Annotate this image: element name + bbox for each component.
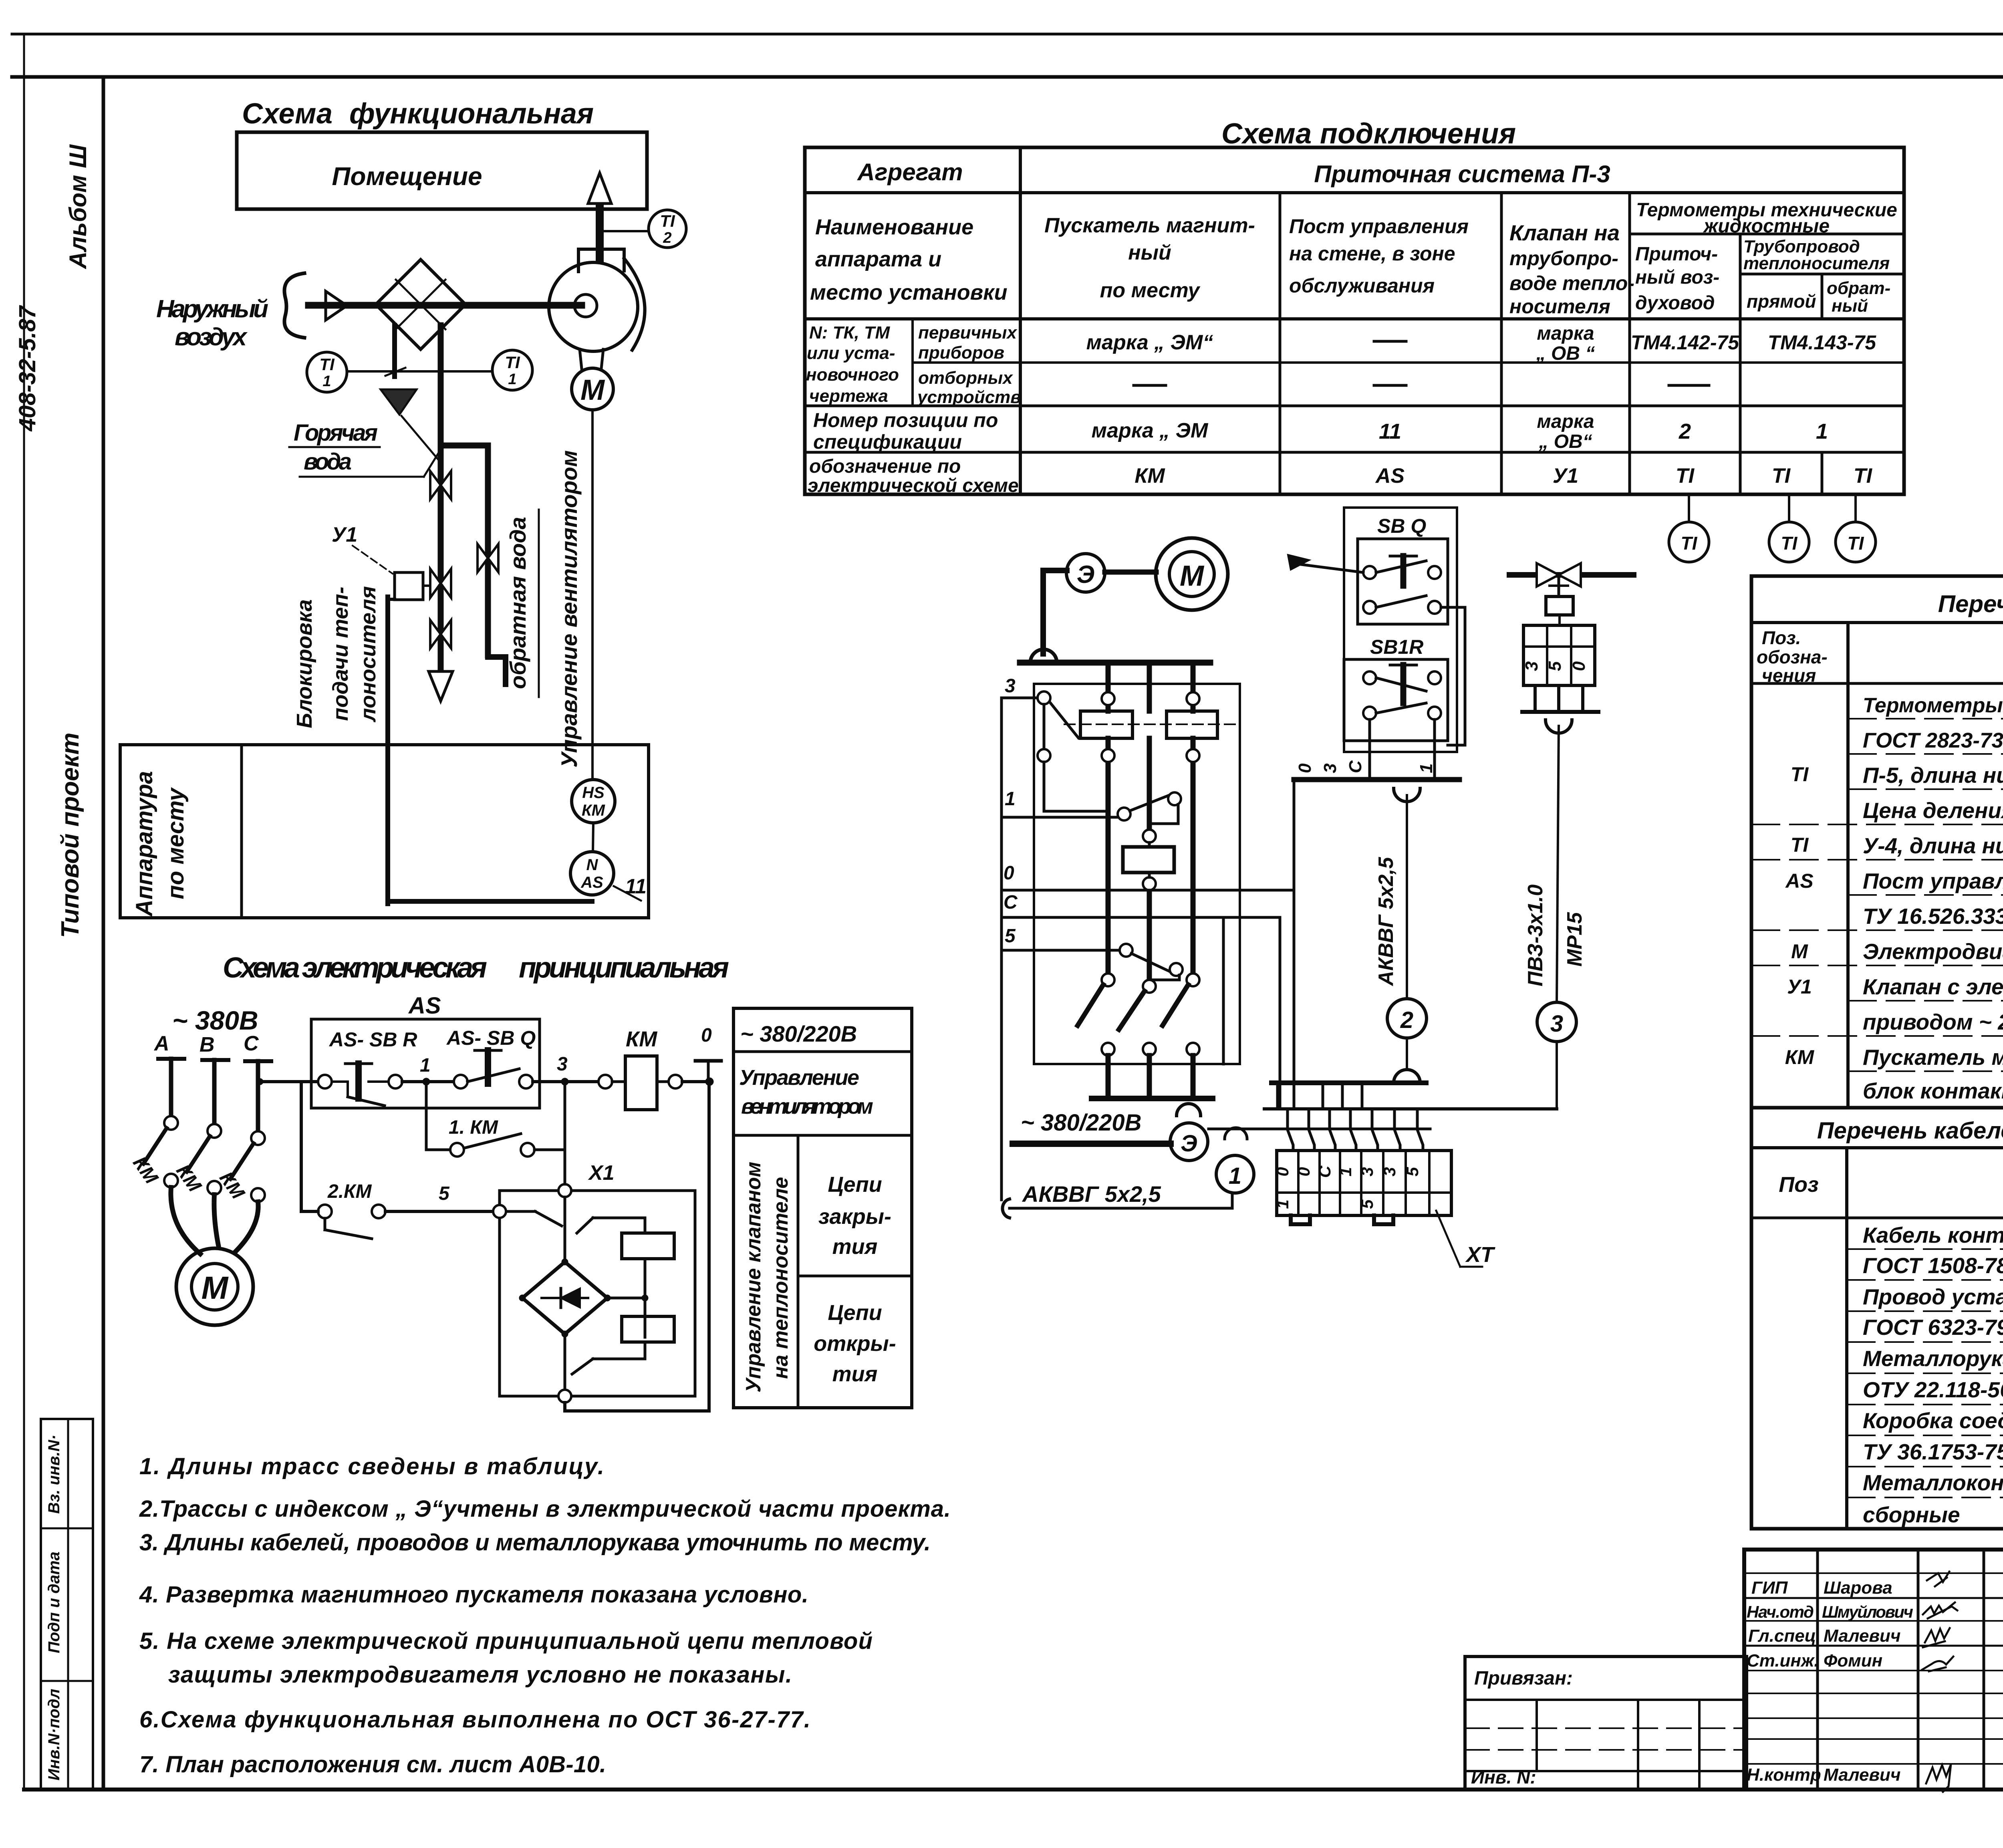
svg-text:КМ: КМ	[172, 1161, 206, 1196]
node 1	[402, 1055, 454, 1085]
svg-text:Цепи: Цепи	[828, 1173, 882, 1197]
svg-text:воздух: воздух	[175, 323, 248, 351]
svg-text:сборные: сборные	[1863, 1502, 1960, 1527]
cable rows text	[1863, 1223, 2003, 1527]
wire over circle 1	[1209, 1128, 1430, 1139]
label Блокировка (rotated)	[292, 599, 316, 728]
svg-text:М: М	[580, 374, 605, 406]
svg-text:воде тепло-: воде тепло-	[1509, 272, 1634, 294]
svg-text:тия: тия	[832, 1235, 878, 1259]
svg-text:С: С	[1004, 892, 1018, 913]
svg-text:5: 5	[1358, 1199, 1376, 1209]
svg-text:3: 3	[1380, 1167, 1399, 1176]
svg-text:Перечень приборов и аппара: Перечень приборов и аппаратуры	[1938, 590, 2003, 617]
svg-text:„ ОВ “: „ ОВ “	[1536, 343, 1595, 364]
svg-text:Металлоконструкции крепления: Металлоконструкции крепления	[1863, 1470, 2003, 1495]
header texts	[810, 159, 1897, 318]
push button SB1R	[1344, 607, 1465, 780]
svg-text:ГИП: ГИП	[1751, 1578, 1788, 1598]
lamp Э lower	[1170, 1123, 1208, 1161]
relay coil upper	[506, 1211, 674, 1337]
thermometer TI1 left	[307, 352, 347, 392]
svg-text:обозначение по: обозначение по	[809, 456, 961, 477]
svg-text:~ 380/220В: ~ 380/220В	[740, 1021, 857, 1046]
svg-text:Шарова: Шарова	[1824, 1578, 1892, 1598]
svg-text:Вз. инв.N·: Вз. инв.N·	[45, 1435, 63, 1514]
svg-text:Малевич: Малевич	[1824, 1626, 1901, 1646]
svg-text:~ 380/220В: ~ 380/220В	[1021, 1110, 1142, 1136]
svg-text:SВ1R: SВ1R	[1370, 636, 1423, 658]
table grid	[805, 147, 1904, 494]
svg-text:2: 2	[1400, 1007, 1413, 1033]
svg-text:спецификации: спецификации	[813, 431, 962, 453]
svg-text:ГОСТ 1508-78 Е: ГОСТ 1508-78 Е	[1863, 1253, 2003, 1278]
push button station SB (right)	[1288, 508, 1457, 752]
wire C	[1001, 892, 1280, 1109]
svg-text:функциональная: функциональная	[349, 98, 594, 130]
solenoid valve Y1	[332, 523, 451, 600]
svg-text:С: С	[1315, 1165, 1334, 1178]
svg-text:вентилятором: вентилятором	[741, 1094, 873, 1118]
svg-text:приводом ~ 220В: приводом ~ 220В	[1863, 1010, 2003, 1034]
device rows text	[1785, 694, 2003, 1103]
magnetic starter unfolded box	[1034, 663, 1240, 1064]
junction lamp Э top	[1066, 554, 1105, 592]
svg-text:марка „ ЭМ: марка „ ЭМ	[1092, 419, 1209, 442]
svg-text:ТI: ТI	[1791, 763, 1809, 786]
svg-text:5: 5	[1005, 925, 1016, 947]
svg-text:аппарата и: аппарата и	[815, 247, 941, 271]
svg-text:Привязан:: Привязан:	[1474, 1668, 1573, 1689]
exhaust duct with arrow	[588, 173, 611, 260]
svg-text:Термометры технические жидко: Термометры технические жидкостные	[1863, 694, 2003, 717]
svg-text:Аппаратура: Аппаратура	[131, 771, 157, 917]
svg-text:0: 0	[1004, 863, 1014, 884]
svg-text:марка: марка	[1537, 411, 1594, 432]
svg-text:блок контакты: 1з+1р: блок контакты: 1з+1р	[1863, 1078, 2003, 1103]
label Наружный воздух	[156, 295, 268, 351]
svg-text:3: 3	[1550, 1011, 1563, 1037]
svg-text:А: А	[153, 1032, 169, 1055]
svg-text:Горячая: Горячая	[294, 420, 378, 446]
svg-text:откры-: откры-	[814, 1332, 896, 1356]
auxiliary contact 1-KM	[426, 1082, 565, 1157]
svg-text:1. Длины трасс сведены в т: 1. Длины трасс сведены в таблицу.	[139, 1453, 604, 1479]
thermometer TI circle (return pipe)	[1836, 494, 1876, 562]
svg-text:обслуживания: обслуживания	[1289, 274, 1435, 297]
heat exchanger diamond	[376, 260, 465, 349]
svg-text:ТМ4.142-75: ТМ4.142-75	[1631, 331, 1739, 354]
control post AS box	[311, 993, 540, 1108]
svg-text:Управление клапаном: Управление клапаном	[742, 1162, 765, 1393]
svg-text:АКВВГ 5х2,5: АКВВГ 5х2,5	[1374, 856, 1398, 986]
svg-text:Пускатель магнитный, катушка: Пускатель магнитный, катушка ~ 220В	[1863, 1045, 2003, 1070]
heat valve on pipe (middle right)	[1509, 563, 1634, 615]
valve on supply pipe (upper)	[430, 471, 451, 499]
svg-text:3: 3	[1522, 661, 1542, 671]
terminal strip XT	[1273, 1151, 1451, 1224]
svg-text:~ 380В: ~ 380В	[172, 1006, 258, 1035]
svg-text:0: 0	[1294, 1167, 1313, 1176]
svg-text:2.КМ: 2.КМ	[327, 1181, 372, 1202]
svg-text:Типовой проект: Типовой проект	[56, 733, 84, 938]
wire 0	[1001, 863, 1294, 890]
svg-text:Схема: Схема	[242, 98, 338, 130]
label ~380V	[172, 1006, 258, 1035]
svg-text:ТI: ТI	[505, 353, 520, 372]
svg-text:Схема электрическая: Схема электрическая	[223, 952, 487, 984]
rectifier bridge	[519, 1197, 611, 1337]
terminal 0	[695, 1025, 721, 1086]
svg-text:ТI: ТI	[1854, 464, 1873, 488]
svg-text:Управление вентилятором: Управление вентилятором	[556, 450, 582, 768]
svg-text:КМ: КМ	[626, 1027, 657, 1051]
svg-text:Фомин: Фомин	[1824, 1651, 1882, 1671]
svg-text:1: 1	[1005, 788, 1016, 810]
svg-text:Нач.отд: Нач.отд	[1747, 1602, 1814, 1621]
svg-text:жидкостные: жидкостные	[1703, 216, 1830, 237]
svg-text:первичных: первичных	[918, 323, 1017, 343]
svg-text:Клапан с электромагнитным: Клапан с электромагнитным	[1863, 974, 2003, 999]
svg-text:по месту: по месту	[1100, 279, 1201, 302]
svg-text:0: 0	[1569, 661, 1589, 671]
svg-text:HS: HS	[582, 784, 605, 802]
control wire from phase C	[257, 1078, 318, 1211]
svg-text:AS: AS	[1785, 870, 1813, 892]
svg-text:3: 3	[1358, 1167, 1376, 1176]
svg-text:2: 2	[1679, 419, 1691, 443]
svg-text:3. Длины кабелей, проводов и: 3. Длины кабелей, проводов и металлорука…	[139, 1530, 931, 1556]
svg-text:Цена деления шкалы 1°С: Цена деления шкалы 1°С	[1863, 798, 2003, 823]
svg-text:подачи теп-: подачи теп-	[328, 586, 353, 721]
svg-text:Поз: Поз	[1779, 1173, 1818, 1197]
svg-text:АКВВГ 5х2,5: АКВВГ 5х2,5	[1022, 1181, 1161, 1207]
svg-text:КМ: КМ	[215, 1168, 249, 1203]
svg-text:AS: AS	[1375, 464, 1405, 488]
svg-text:1: 1	[1229, 1163, 1241, 1189]
svg-text:новочного: новочного	[806, 365, 899, 385]
phase terminals A B C	[153, 1032, 271, 1061]
svg-text:AS- SB Q: AS- SB Q	[446, 1027, 536, 1049]
contact 2-KM row	[301, 1181, 500, 1239]
svg-text:С: С	[244, 1032, 259, 1055]
svg-text:лоносителя: лоносителя	[356, 586, 380, 723]
svg-text:Пост управления: Пост управления	[1289, 215, 1469, 238]
svg-text:ный: ный	[1128, 241, 1171, 264]
svg-text:1: 1	[322, 373, 331, 390]
title: Схема электрическая принципиальная	[223, 952, 729, 984]
drop wire with grommet	[1020, 570, 1210, 663]
valve terminal box 3 5 0	[1522, 615, 1598, 733]
svg-text:Поз.: Поз.	[1762, 627, 1801, 648]
svg-text:место установки: место установки	[810, 280, 1008, 304]
intake duct	[308, 302, 582, 309]
svg-text:ТI: ТI	[1791, 834, 1809, 856]
svg-text:ТI: ТI	[319, 355, 335, 374]
svg-text:Наименование: Наименование	[815, 215, 973, 239]
wire 1	[1001, 788, 1181, 824]
svg-text:2: 2	[663, 230, 671, 246]
cable to circle 2	[1374, 795, 1427, 1083]
circuit legend table	[733, 1008, 912, 1408]
svg-text:ТУ 16.526.333-74: ТУ 16.526.333-74	[1863, 904, 2003, 929]
label обратная вода (rotated)	[505, 510, 539, 697]
svg-text:трубопро-: трубопро-	[1509, 247, 1618, 270]
svg-text:У1: У1	[1787, 975, 1812, 998]
svg-text:SВ Q: SВ Q	[1377, 515, 1426, 537]
svg-text:КМ: КМ	[1785, 1046, 1815, 1068]
svg-text:3: 3	[1320, 764, 1340, 773]
svg-text:Схема подключения: Схема подключения	[1221, 118, 1516, 150]
starter coil	[1123, 830, 1174, 890]
valve on supply pipe (lower)	[430, 620, 451, 648]
wire inside starter to C rail	[1179, 917, 1223, 1064]
svg-text:11: 11	[1379, 419, 1401, 443]
intake arrow	[326, 291, 347, 320]
node 3	[557, 1054, 598, 1085]
svg-text:Инв.N·подл: Инв.N·подл	[45, 1689, 63, 1780]
svg-text:Электродвигатель вентилятора: Электродвигатель вентилятора ~380В	[1863, 939, 2003, 964]
svg-text:ГОСТ 2823-73 с оправой вар„Б“Г: ГОСТ 2823-73 с оправой вар„Б“ГОСТ 3029-7…	[1863, 729, 2003, 752]
SB terminal bus	[1294, 760, 1459, 1109]
conduit to circle 3	[1524, 726, 1586, 1109]
return water pipe	[441, 445, 506, 684]
motor M	[176, 1248, 253, 1325]
svg-text:защиты электродвигателя усло: защиты электродвигателя условно не показ…	[168, 1662, 792, 1688]
svg-text:или уста-: или уста-	[807, 343, 895, 363]
svg-text:отборных: отборных	[918, 368, 1013, 388]
svg-text:марка: марка	[1537, 323, 1594, 344]
svg-text:4. Развертка магнитного пуск: 4. Развертка магнитного пускателя показа…	[139, 1582, 808, 1608]
thermometer TI circle (direct pipe)	[1769, 494, 1809, 562]
svg-text:П-5, длина нижней части 66м: П-5, длина нижней части 66мм	[1863, 763, 2003, 788]
svg-text:1: 1	[508, 371, 516, 388]
local apparatus box Аппаратура по месту	[120, 745, 649, 918]
svg-text:ГОСТ 6323-79: ГОСТ 6323-79	[1863, 1315, 2003, 1340]
svg-text:Гл.спец: Гл.спец	[1748, 1626, 1816, 1646]
cable AKVVG 5x2.5	[1002, 1181, 1232, 1218]
svg-text:духовод: духовод	[1635, 292, 1715, 314]
svg-text:3: 3	[557, 1054, 568, 1075]
wire 5	[1001, 925, 1183, 980]
svg-text:Ст.инж.: Ст.инж.	[1747, 1651, 1819, 1671]
svg-text:М: М	[202, 1270, 229, 1306]
X1 bottom terminal and return wire	[558, 1082, 709, 1411]
svg-text:ТI: ТI	[660, 212, 675, 230]
svg-text:электрической схеме: электрической схеме	[808, 475, 1019, 496]
supply label and bar	[1013, 1110, 1171, 1144]
fan volute	[549, 249, 645, 351]
svg-text:Клапан на: Клапан на	[1509, 220, 1620, 245]
svg-text:У1: У1	[332, 523, 357, 546]
svg-text:ный воз-: ный воз-	[1635, 267, 1719, 288]
svg-text:ный: ный	[1832, 296, 1868, 316]
svg-text:N: ТК, ТМ: N: ТК, ТМ	[809, 323, 890, 343]
svg-text:Пост управления ПКУ-15-21-12: Пост управления ПКУ-15-21-121-40У3	[1863, 869, 2003, 893]
svg-text:1: 1	[1273, 1199, 1292, 1209]
indicator HS KM	[572, 780, 615, 852]
thermometer TI1 right	[492, 350, 532, 390]
svg-text:обозна-: обозна-	[1757, 647, 1828, 667]
svg-text:Цепи: Цепи	[828, 1301, 882, 1325]
svg-text:1: 1	[420, 1055, 431, 1076]
svg-text:Перечень кабелей, проводов и: Перечень кабелей, проводов и монтажных м…	[1817, 1118, 2003, 1144]
svg-text:6.Схема функциональная выпол: 6.Схема функциональная выполнена по ОСТ …	[139, 1707, 810, 1733]
svg-text:Коробка соединительная КСК-8: Коробка соединительная КСК-8	[1863, 1408, 2003, 1433]
svg-text:КМ: КМ	[1134, 464, 1165, 488]
svg-text:закры-: закры-	[818, 1205, 891, 1229]
svg-text:Помещение: Помещение	[332, 162, 482, 191]
temperature sensor stub and bulb	[381, 325, 440, 461]
svg-text:Приточ-: Приточ-	[1635, 244, 1718, 265]
title: Схема функциональная	[242, 98, 594, 130]
svg-text:0: 0	[701, 1025, 712, 1046]
knife contacts at starter bottom	[1078, 973, 1199, 1098]
indicator N AS	[570, 852, 647, 901]
svg-text:AS: AS	[580, 874, 603, 891]
svg-text:Инв. N:: Инв. N:	[1471, 1767, 1536, 1788]
svg-text:В: В	[199, 1033, 215, 1056]
svg-text:КМ: КМ	[129, 1153, 162, 1188]
marker circle 1	[1216, 1155, 1254, 1193]
svg-text:Блокировка: Блокировка	[292, 599, 316, 728]
svg-text:устройств: устройств	[917, 387, 1021, 407]
wire E to M	[1105, 570, 1156, 575]
interlock wire (thick L)	[388, 597, 592, 904]
svg-text:Агрегат: Агрегат	[856, 159, 963, 185]
svg-text:AS- SB R: AS- SB R	[328, 1028, 417, 1051]
svg-text:Управление: Управление	[739, 1066, 859, 1090]
svg-text:ТI: ТI	[1848, 533, 1864, 554]
svg-text:1: 1	[1816, 419, 1828, 443]
svg-text:„ ОВ“: „ ОВ“	[1538, 431, 1592, 452]
svg-text:тия: тия	[832, 1362, 878, 1386]
svg-text:5: 5	[1545, 661, 1565, 671]
svg-text:Э: Э	[1077, 561, 1095, 588]
TI connecting line	[347, 370, 492, 373]
svg-text:на стене, в зоне: на стене, в зоне	[1289, 242, 1455, 265]
svg-text:на теплоносителе: на теплоносителе	[769, 1177, 792, 1379]
wire 3	[1001, 675, 1108, 811]
row: designation	[808, 456, 1873, 496]
svg-text:1. КМ: 1. КМ	[449, 1117, 498, 1138]
left margin rotated captions	[14, 144, 93, 1789]
row: position number	[813, 409, 1828, 453]
label Горячая вода	[289, 420, 441, 477]
bottom bus of starter	[1092, 1098, 1213, 1116]
svg-text:1: 1	[1336, 1167, 1355, 1176]
svg-text:3: 3	[1005, 675, 1016, 697]
svg-text:С: С	[1346, 760, 1365, 773]
device rows separators	[1751, 719, 2003, 1071]
svg-text:теплоносителя: теплоносителя	[1743, 254, 1890, 273]
svg-text:приборов: приборов	[918, 343, 1004, 363]
svg-text:чения: чения	[1762, 665, 1816, 686]
fan motor connection	[580, 349, 603, 369]
svg-text:Шмуйлович: Шмуйлович	[1822, 1602, 1913, 1621]
svg-text:носителя: носителя	[1509, 295, 1610, 318]
svg-text:Пускатель магнит-: Пускатель магнит-	[1044, 214, 1255, 237]
svg-text:5: 5	[1403, 1167, 1422, 1177]
svg-text:марка „ ЭМ“: марка „ ЭМ“	[1086, 331, 1213, 354]
svg-text:408-32-5.87: 408-32-5.87	[14, 305, 40, 432]
svg-text:N: N	[586, 856, 598, 874]
hot water supply pipe	[429, 325, 453, 701]
svg-text:Металлорукав РЗ-АЛ-Х Ду=15мм: Металлорукав РЗ-АЛ-Х Ду=15мм	[1863, 1346, 2003, 1371]
svg-text:обрат-: обрат-	[1827, 278, 1890, 298]
svg-text:ТI: ТI	[1772, 464, 1791, 488]
button AS-SB Q	[454, 1050, 562, 1088]
svg-text:КМ: КМ	[582, 802, 606, 819]
svg-text:0: 0	[1295, 763, 1315, 773]
svg-text:5. На схеме электрической п: 5. На схеме электрической принципиальной…	[139, 1628, 873, 1654]
svg-text:Подп и дата: Подп и дата	[45, 1552, 63, 1653]
svg-text:М: М	[1180, 560, 1205, 592]
motor M top	[1156, 538, 1228, 610]
svg-text:0: 0	[1273, 1167, 1292, 1176]
outside air intake bracket	[284, 273, 304, 338]
svg-text:7. План расположения см. л: 7. План расположения см. лист А0В-10.	[139, 1751, 606, 1777]
svg-text:У-4, длина нижней части 291: У-4, длина нижней части 291мм	[1863, 833, 2003, 858]
left terminal rail	[1000, 698, 1003, 1200]
thermometer TI circle (supply air)	[1669, 494, 1709, 562]
button AS-SB R	[318, 1064, 402, 1106]
svg-text:Кабель контрольный АКВВГ 5х: Кабель контрольный АКВВГ 5х2,5	[1863, 1223, 2003, 1247]
svg-text:ТI: ТI	[1676, 464, 1695, 488]
svg-text:ТМ4.143-75: ТМ4.143-75	[1768, 331, 1876, 354]
svg-text:Н.контр: Н.контр	[1747, 1765, 1821, 1785]
svg-text:МР15: МР15	[1563, 912, 1586, 967]
svg-text:Приточная система П-3: Приточная система П-3	[1314, 161, 1610, 187]
attachment box Привязан	[1465, 1657, 1747, 1790]
cable rows separators	[1847, 1249, 2003, 1497]
motor M circle	[572, 368, 613, 410]
signature rows	[1744, 1572, 2003, 1792]
svg-text:Э: Э	[1181, 1131, 1197, 1157]
thermometer TI2	[603, 210, 686, 248]
svg-text:5: 5	[439, 1183, 450, 1204]
svg-text:вода: вода	[304, 449, 352, 475]
svg-text:Наружный: Наружный	[156, 295, 268, 323]
terminal block XT assembly	[1264, 1083, 1557, 1109]
row: N TK TM primary devices	[806, 323, 1876, 407]
svg-text:ОТУ 22.118-56: ОТУ 22.118-56	[1863, 1377, 2003, 1402]
svg-text:М: М	[1791, 940, 1808, 963]
svg-text:обратная вода: обратная вода	[505, 517, 530, 689]
svg-text:Альбом Ш: Альбом Ш	[64, 144, 91, 270]
terminal drop wires	[1288, 1109, 1423, 1151]
svg-text:Малевич: Малевич	[1824, 1765, 1901, 1785]
svg-text:ТI: ТI	[1681, 533, 1698, 554]
svg-text:принципиальная: принципиальная	[519, 952, 729, 984]
svg-text:ПВЗ-3х1.0: ПВЗ-3х1.0	[1524, 885, 1547, 987]
svg-text:ТI: ТI	[1781, 533, 1798, 554]
svg-text:У1: У1	[1553, 464, 1578, 488]
svg-text:чертежа: чертежа	[809, 386, 888, 406]
room box Помещение	[237, 132, 647, 209]
svg-text:AS: AS	[408, 993, 441, 1019]
valve control unit X1 box	[493, 1150, 695, 1396]
label подачи теплоносителя (rotated)	[328, 586, 380, 723]
title: Схема подключения	[1221, 118, 1516, 150]
svg-text:ТУ 36.1753-75: ТУ 36.1753-75	[1863, 1439, 2003, 1464]
svg-text:Х1: Х1	[588, 1161, 615, 1185]
contactor coil KM	[598, 1027, 711, 1110]
XT label with leader	[1436, 1211, 1495, 1267]
svg-text:Номер позиции по: Номер позиции по	[813, 409, 998, 431]
svg-text:1: 1	[1417, 764, 1436, 773]
svg-text:по месту: по месту	[163, 787, 189, 899]
